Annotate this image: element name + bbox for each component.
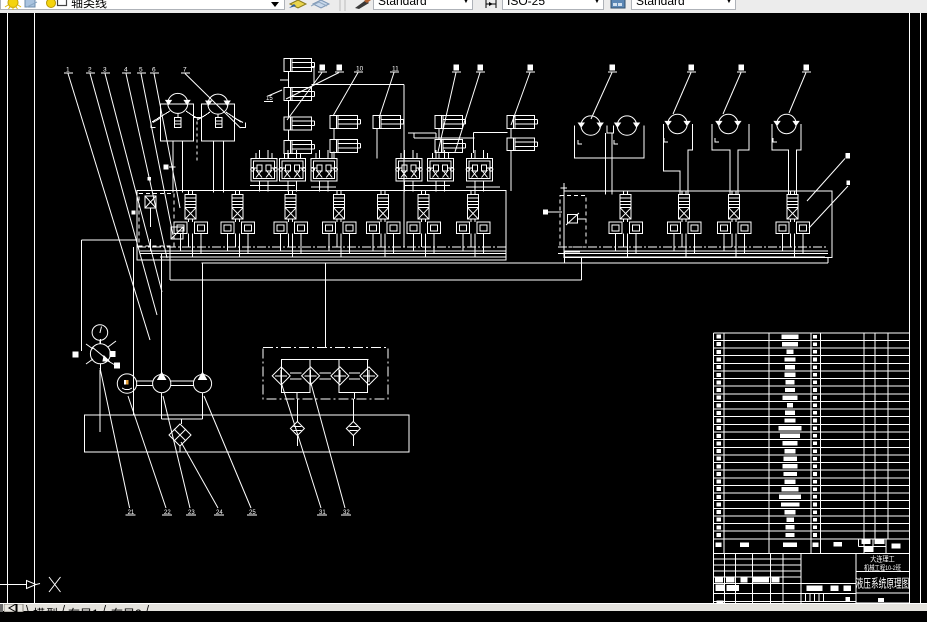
UCS icon X axis — [0, 584, 27, 586]
label 13 with leader — [478, 65, 484, 71]
check valve assembly V3 — [311, 158, 337, 181]
electric motor EM circle — [117, 374, 136, 393]
cylinder CYL4 — [284, 141, 312, 154]
shaft motor-P1 — [137, 380, 153, 382]
check valve assembly V1 — [251, 158, 277, 181]
cylinder CYL7 — [373, 116, 401, 129]
motor M1-M2 enclosure — [575, 126, 644, 158]
cylinder CYL11 — [507, 138, 535, 151]
properties brush icon — [355, 0, 369, 9]
drawing frame left inner line — [34, 13, 36, 603]
parts list text entries — [782, 334, 799, 338]
bus line P2 — [140, 252, 506, 254]
lower bus line — [170, 279, 582, 281]
hydraulic motor M-B circle — [208, 94, 228, 114]
right manifold T port mark — [561, 187, 568, 189]
drawing frame right inner line — [909, 13, 911, 603]
return filter F2 — [346, 422, 360, 436]
bus line T — [160, 256, 506, 258]
combo dropdown arrow — [271, 2, 279, 7]
check valve assembly V6 — [467, 158, 493, 181]
top toolbar (cut off) — [0, 0, 927, 13]
label 19 with leader — [804, 65, 810, 71]
toolbar separator — [339, 0, 341, 11]
motor M2 drain hook — [614, 140, 618, 144]
directional valve stack D8 — [620, 195, 631, 208]
hydraulic motor M2 circle — [617, 116, 636, 135]
electric motor letter mark — [124, 380, 126, 385]
label 18 with leader — [739, 65, 745, 71]
wire relief to tank — [99, 370, 101, 432]
relief valve S3 — [568, 215, 578, 224]
cylinder CYL8 — [435, 116, 463, 129]
check valve CV2 — [302, 367, 320, 385]
motor M-A pedestal — [172, 141, 174, 193]
hydraulic motor M5 circle — [777, 114, 796, 133]
suction strainer — [169, 424, 191, 446]
drawing frame left outer line — [7, 13, 9, 603]
motor M-B side arcs — [197, 112, 210, 120]
oil tank — [85, 415, 410, 452]
directional valve stack D3 — [285, 195, 296, 208]
dashed pilot line near motors — [196, 121, 198, 163]
check valve CV1 — [272, 367, 290, 385]
hydraulic motor M1 circle — [581, 116, 600, 135]
motor M-A enclosure box — [161, 104, 194, 141]
svg-text:机械工程10-2班: 机械工程10-2班 — [864, 563, 901, 572]
wire check block to filters — [296, 392, 298, 399]
label 35 tag — [543, 210, 548, 215]
check block header line — [282, 359, 369, 361]
layer lock icon — [25, 0, 35, 7]
check valve assembly V5 — [428, 158, 454, 181]
motor M-B enclosure box — [202, 104, 235, 141]
directional valve stack D7 — [468, 195, 479, 208]
hydraulic motor M3 circle — [668, 114, 687, 133]
text style combo — [373, 0, 473, 10]
dim style combo — [502, 0, 604, 10]
parts list column rules — [713, 333, 715, 554]
layer color swatch — [58, 0, 67, 6]
motor M-A left drain hook — [151, 123, 156, 128]
label 14 with leader — [528, 65, 534, 71]
check valve CV4 — [360, 367, 378, 385]
layer previous button — [313, 0, 329, 8]
wire M4 supply — [712, 124, 730, 195]
motor M-B pedestal — [212, 141, 214, 193]
cylinder CYL9 — [435, 140, 463, 153]
wire cylinder col2 ports — [333, 128, 335, 139]
wire riser x404 — [403, 85, 405, 248]
pressure gauge G1 — [92, 325, 108, 341]
pump P2 circle — [193, 375, 211, 393]
wire between motor boxes — [193, 117, 201, 119]
right manifold dashed enclosure — [560, 196, 586, 248]
bottom layout tab bar — [0, 603, 927, 611]
drain bus dash-dot — [137, 246, 506, 248]
title block middle cells — [800, 553, 802, 603]
label 20 tag — [164, 164, 169, 169]
wire cylinder col5 ports — [510, 128, 512, 138]
wire P1 pressure riser — [161, 253, 163, 374]
dim style icon — [486, 0, 496, 8]
motor M3 drain hook — [664, 138, 668, 142]
wire cylinder col4 ports — [438, 128, 440, 139]
breather square ports — [72, 352, 78, 358]
check block sub-rect right — [339, 360, 368, 393]
directional valve stack D11 — [787, 195, 798, 208]
left manifold block — [137, 191, 506, 261]
check block sub-rect left — [282, 360, 311, 393]
svg-text:液压系统原理图: 液压系统原理图 — [856, 576, 910, 591]
layout1 tab — [68, 605, 99, 622]
bus line P1 — [140, 250, 506, 252]
UCS icon X label — [49, 577, 61, 592]
cylinder CYL6 — [330, 140, 358, 153]
main pressure line — [202, 262, 829, 264]
wire check block riser — [325, 263, 327, 347]
label 12 with leader — [454, 65, 460, 71]
pump P1 circle — [153, 375, 171, 393]
drawing frame right outer line — [920, 13, 922, 603]
label 16 with leader — [610, 65, 616, 71]
motor M-A side arcs — [152, 111, 170, 122]
motor M5 drain hook — [773, 138, 777, 142]
directional valve stack D1 — [185, 195, 196, 208]
node tag left of manifold — [132, 211, 136, 215]
cylinder CYL2 — [284, 88, 312, 101]
wire cylinder col3 port — [376, 128, 378, 158]
layout2 tab — [111, 605, 142, 622]
unloading valve S1 — [145, 196, 156, 208]
cylinder CYL5 — [330, 116, 358, 129]
title block revision grid — [714, 552, 802, 554]
check valve assembly V2 — [279, 158, 305, 181]
hydraulic motor M4 circle — [719, 114, 738, 133]
directional valve stack D10 — [729, 195, 740, 208]
return filter F1 — [290, 422, 304, 436]
cylinder CYL1 — [284, 59, 312, 72]
check valve assembly V4 — [396, 158, 422, 181]
make layer current button — [290, 0, 306, 8]
title block school name — [856, 571, 910, 573]
shaft P1-P2 — [171, 380, 194, 382]
wire suction manifold — [161, 393, 163, 419]
wire shelf under assemblies 1-3 — [250, 185, 295, 187]
breather spokes — [86, 344, 93, 349]
svg-text:大连理工: 大连理工 — [870, 554, 895, 564]
check valve CV3 — [331, 367, 349, 385]
motor M4 drain hook — [715, 138, 719, 142]
check valve block dashed frame — [263, 348, 388, 399]
wire cylinder col1 ports — [288, 72, 290, 88]
svg-text:轴类线: 轴类线 — [71, 0, 107, 10]
motor M-B brake valve — [215, 118, 222, 128]
hydraulic motor M-A circle — [168, 93, 188, 113]
right manifold block — [564, 191, 832, 258]
cylinder CYL10 — [507, 116, 535, 129]
node tag near manifold — [148, 177, 152, 181]
directional valve stack D2 — [232, 195, 243, 208]
label 9 with leader — [337, 65, 343, 71]
wire between check valves — [290, 372, 301, 374]
wire right manifold drop — [581, 258, 583, 281]
motor M1 drain hook — [578, 140, 582, 144]
directional valve stack D5 — [378, 195, 389, 208]
directional valve stack D4 — [334, 195, 345, 208]
directional valve stack D6 — [418, 195, 429, 208]
wire M5 supply — [772, 124, 789, 195]
motor M-B port arrows — [206, 101, 212, 105]
parts list horizontal rules — [714, 332, 910, 334]
wire M1M2 to manifold — [604, 133, 606, 195]
wire P2 pressure riser — [202, 263, 204, 374]
cylinder CYL3 — [284, 117, 312, 130]
wire S1 to S2 — [150, 208, 152, 227]
wire return to tank — [133, 247, 135, 415]
title block bottom strip — [856, 602, 910, 604]
layer bulb icon — [47, 0, 56, 8]
relief valve with breather — [90, 344, 110, 364]
motor M-A brake valve — [175, 118, 181, 128]
layer control combo — [0, 0, 285, 10]
wire rod line top to riser — [312, 66, 315, 68]
directional valve stack D9 — [679, 195, 690, 208]
layer freeze sun icon — [8, 0, 18, 8]
label 33 with leader — [846, 153, 851, 159]
label 34 with leader — [847, 180, 851, 185]
label 17 with leader — [689, 65, 695, 71]
model tab — [33, 605, 59, 622]
label 8 with leader — [320, 65, 326, 71]
wire manifold left drop — [82, 239, 138, 241]
wire M3 supply — [664, 124, 680, 195]
pilot relief valve S2 — [171, 227, 183, 239]
left manifold dashed enclosure — [139, 193, 174, 246]
motor M-B right drain hook — [241, 123, 246, 128]
parts list header row — [714, 552, 910, 554]
table style combo — [631, 0, 736, 10]
motor M-A port arrows — [166, 100, 172, 104]
table style icon — [611, 0, 625, 8]
wire shelf under assemblies 4-6 — [405, 185, 450, 187]
